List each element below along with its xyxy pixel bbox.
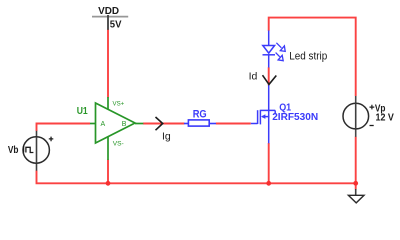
wire: VDD vertical red segment [107, 29, 109, 97]
wire: Vb bottom to rail corner [37, 171, 109, 184]
wire: Vp bottom to rail [355, 137, 357, 184]
svg-text:VS-: VS- [113, 140, 124, 147]
current arrow Id [263, 75, 277, 84]
junction node: Q1 source at rail [266, 181, 271, 186]
svg-text:5V: 5V [110, 19, 122, 31]
wire: Q1 source to rail [268, 143, 270, 183]
svg-text:2IRF530N: 2IRF530N [272, 111, 318, 123]
svg-text:Led strip: Led strip [289, 50, 327, 62]
resistor RG [184, 120, 216, 126]
plus sign of Vp [370, 105, 375, 110]
led emission arrows [276, 43, 286, 61]
square wave glyph inside Vb [24, 146, 34, 153]
wire: bottom rail [108, 182, 356, 184]
ground [355, 189, 357, 195]
led Led strip [263, 31, 276, 68]
svg-text:Vb: Vb [8, 145, 19, 156]
source Vp (12V DC) [355, 96, 357, 137]
wire: top rail from LED corner to Vp corner [269, 18, 356, 96]
transistor Q1 (IRF530N NMOS) [251, 85, 275, 143]
junction node: op-amp VS- at rail [106, 181, 111, 186]
svg-text:RG: RG [193, 109, 207, 121]
svg-text:Ig: Ig [162, 130, 171, 142]
svg-text:12 V: 12 V [376, 113, 395, 124]
svg-text:VS+: VS+ [113, 101, 125, 108]
wire: op-amp VS- to rail [107, 160, 109, 184]
wire: rail to ground stub (red part) [355, 183, 357, 189]
wire: RG to Q1 gate [216, 123, 251, 125]
op-amp U1 [90, 97, 143, 160]
wire: op-amp output to RG [143, 123, 185, 125]
svg-text:Id: Id [249, 71, 258, 83]
wire: Vb top corner to op-amp input [37, 124, 91, 132]
svg-text:VDD: VDD [98, 5, 119, 17]
minus sign of Vp [370, 125, 374, 127]
svg-text:A: A [101, 121, 106, 128]
svg-text:U1: U1 [77, 106, 88, 117]
plus sign of Vb [49, 137, 54, 142]
current arrow Ig [156, 117, 163, 130]
wire: LED cathode to Q1 drain (red segment with Id arrow) [268, 67, 270, 85]
source Vb (pulse voltage source) [36, 131, 38, 171]
junction node: Vp at rail [353, 181, 358, 186]
power rail VDD (bar and stub) [92, 16, 128, 18]
svg-text:B: B [122, 121, 127, 128]
